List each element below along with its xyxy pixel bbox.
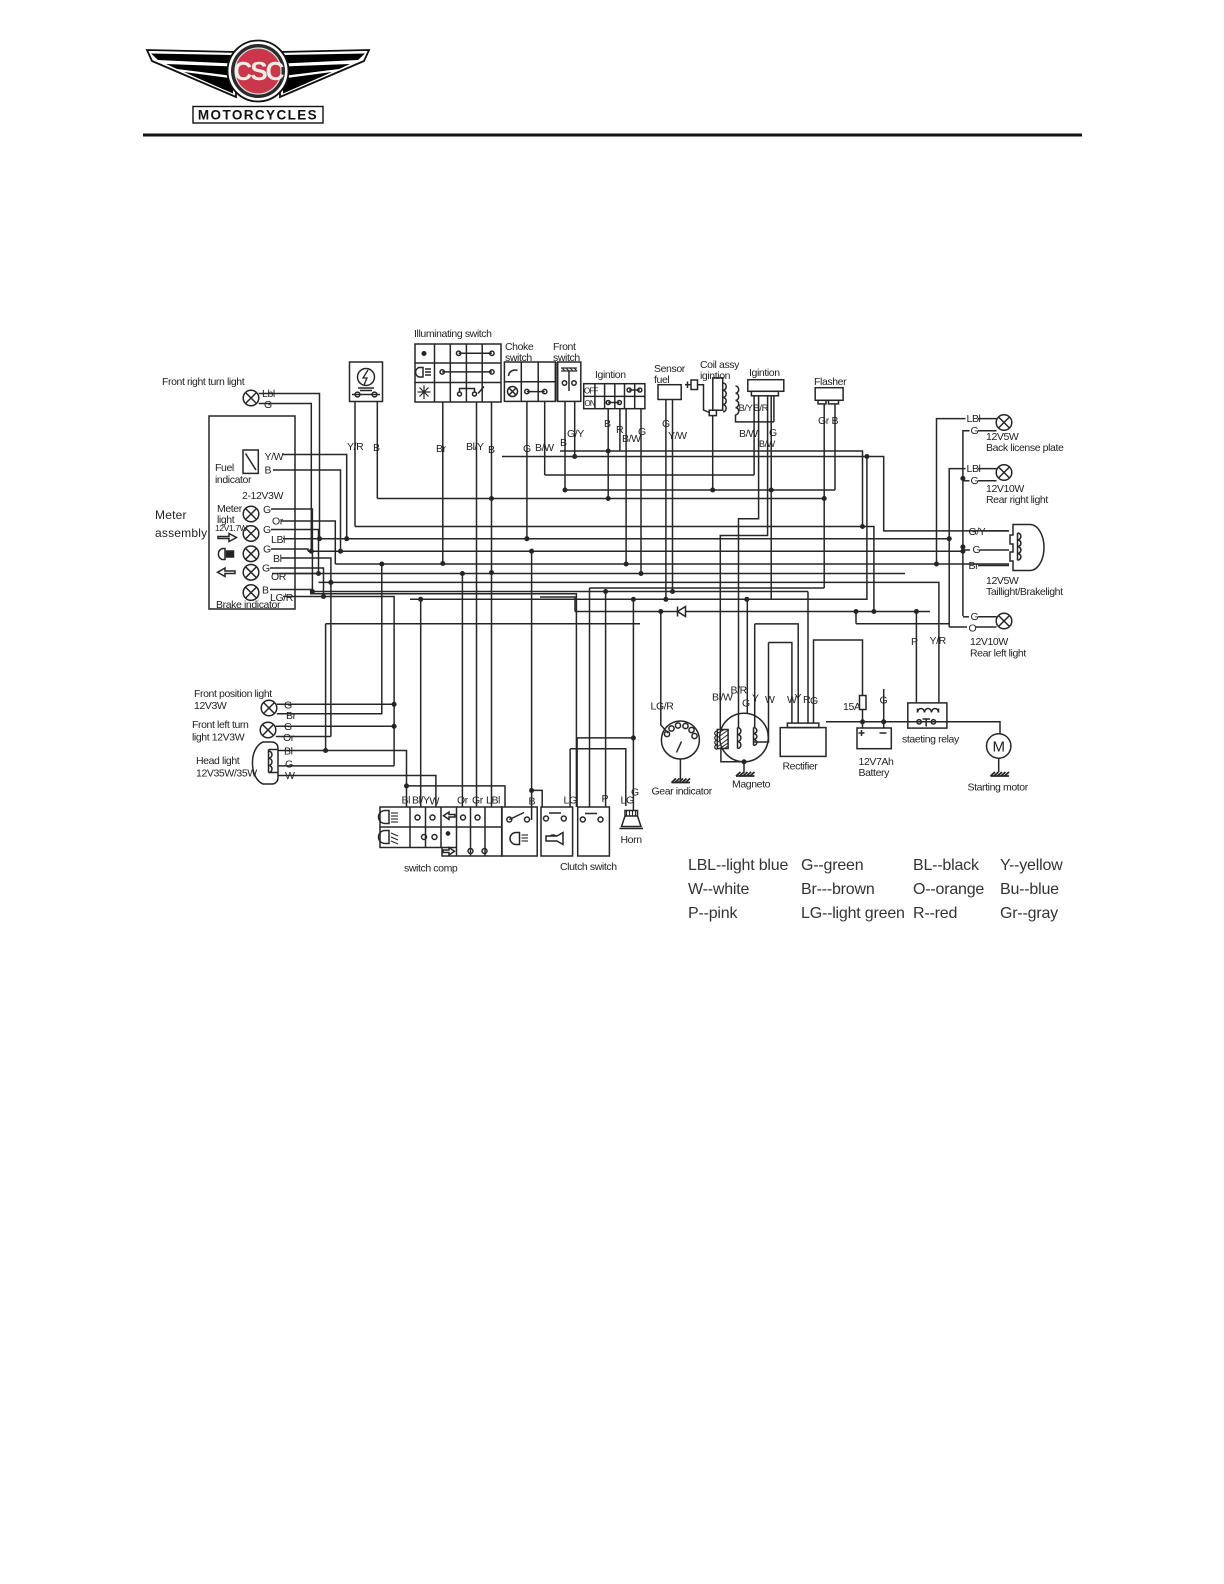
LBl wire back license: [978, 418, 997, 420]
svg-text:Y: Y: [752, 693, 759, 705]
wire Lbl front right turn: [259, 394, 320, 539]
rear left light lamp: [969, 611, 1027, 660]
svg-text:Rear right light: Rear right light: [986, 494, 1048, 506]
stator hatched block: [717, 730, 728, 749]
svg-text:ON: ON: [585, 399, 596, 408]
front left turn light: [192, 719, 295, 744]
G meter1 wire: [271, 509, 312, 592]
svg-text:B: B: [832, 415, 839, 427]
svg-text:G/Y: G/Y: [969, 526, 986, 538]
OR meter wire joins bus: [280, 573, 319, 575]
horn: [620, 787, 644, 847]
svg-text:G: G: [523, 443, 531, 455]
choke switch: [504, 341, 555, 401]
svg-text:Front right turn light: Front right turn light: [162, 376, 245, 388]
wire Y/R from key switch: [354, 402, 356, 527]
wires from ignition coil: [753, 422, 755, 475]
back license plate lamp: [967, 413, 1064, 454]
LG/R brake wire = bus start: [283, 597, 394, 766]
svg-text:G/Y: G/Y: [567, 428, 584, 440]
diode symbol: [678, 607, 686, 617]
svg-text:G: G: [631, 787, 639, 799]
svg-text:G: G: [285, 759, 293, 771]
bus y564 (Br taillight): [335, 563, 1009, 565]
svg-text:BL--black: BL--black: [913, 857, 980, 874]
front switch: [553, 341, 581, 401]
illuminating switch: [414, 328, 501, 402]
svg-text:light 12V3W: light 12V3W: [192, 732, 245, 744]
front position light: [194, 688, 297, 722]
jog wire from Bl dot over top: [407, 786, 506, 807]
starting relay: [902, 703, 960, 746]
right wing: [280, 50, 369, 97]
clutch switch box: [560, 807, 617, 873]
svg-text:Bl: Bl: [273, 553, 282, 565]
G meter3 wire: [271, 549, 308, 551]
svg-text:indicator: indicator: [215, 474, 252, 486]
svg-text:Y/W: Y/W: [265, 451, 284, 463]
Or meter wire: [281, 521, 335, 564]
magneto: [715, 713, 771, 790]
svg-text:G: G: [742, 698, 750, 710]
wires from choke switch: [526, 401, 528, 538]
bus B y498.5: [377, 498, 824, 500]
rectifier: [780, 723, 826, 772]
svg-text:Illuminating switch: Illuminating switch: [414, 328, 492, 340]
fuel indicator: [243, 450, 258, 473]
dimmer switch box: [502, 807, 538, 856]
Bl meter wire: [281, 558, 331, 737]
bus Y/W->G/Y y456: [502, 457, 1009, 531]
fuse 15A: [843, 696, 866, 714]
svg-text:G: G: [263, 544, 271, 556]
bus B/W partial y475: [545, 474, 754, 476]
svg-text:Meter: Meter: [155, 508, 187, 522]
svg-text:Starting motor: Starting motor: [968, 782, 1029, 794]
bus y551.2: [308, 550, 963, 552]
O wire rear left: [976, 626, 997, 628]
G/Y wire to tail: [984, 530, 1009, 532]
svg-text:LBl: LBl: [486, 795, 500, 807]
svg-text:B/W: B/W: [535, 442, 554, 454]
LBl meter wire: [283, 538, 347, 540]
svg-text:Or: Or: [283, 732, 295, 744]
svg-text:G: G: [263, 524, 271, 536]
front right turn light: [162, 376, 275, 411]
inner coils: [738, 728, 741, 749]
bus y591.5: [312, 591, 808, 593]
svg-text:O: O: [969, 623, 977, 635]
bus Y/R y526.5: [355, 527, 874, 612]
svg-text:MOTORCYCLES: MOTORCYCLES: [198, 108, 318, 123]
svg-text:Br: Br: [969, 560, 980, 572]
G wire head light: [278, 765, 394, 767]
bus y582.4: [319, 582, 939, 703]
svg-text:Horn: Horn: [621, 834, 643, 846]
svg-text:B/Y: B/Y: [739, 403, 754, 414]
svg-text:Flasher: Flasher: [814, 376, 847, 388]
svg-text:B: B: [488, 444, 495, 456]
svg-text:igintion: igintion: [700, 370, 731, 382]
headlight icon in cell: [416, 368, 423, 378]
sensor fuel: [654, 363, 686, 400]
svg-text:Back license plate: Back license plate: [986, 442, 1064, 454]
diode bus y611.5: [575, 611, 930, 613]
left arrow icon: [218, 568, 236, 577]
svg-text:G: G: [973, 544, 981, 556]
svg-text:Bl/Y: Bl/Y: [466, 441, 484, 453]
svg-text:Front left turn: Front left turn: [192, 719, 249, 731]
Or wire front left: [276, 736, 331, 738]
svg-text:B: B: [604, 418, 611, 430]
svg-text:Magneto: Magneto: [732, 779, 771, 791]
svg-text:staeting relay: staeting relay: [902, 734, 960, 746]
svg-text:Rear left light: Rear left light: [970, 648, 1026, 660]
CSC Motorcycles logo: [147, 41, 369, 124]
svg-text:B: B: [262, 585, 269, 597]
svg-text:B: B: [560, 437, 567, 449]
jog into diode bus: [540, 597, 575, 612]
G wire rear left: [978, 616, 997, 618]
svg-text:W--white: W--white: [688, 881, 750, 898]
svg-text:M: M: [992, 739, 1005, 756]
svg-text:Clutch switch: Clutch switch: [560, 861, 617, 873]
G wire tail: [980, 549, 1009, 551]
headlight icons: [379, 811, 390, 824]
svg-text:Bl: Bl: [402, 795, 411, 807]
wires from sensor fuel: G, Y/W: [665, 400, 667, 600]
wires from front switch: B and G/Y: [564, 401, 566, 490]
svg-text:12V1.7W: 12V1.7W: [215, 523, 248, 533]
svg-text:G--green: G--green: [801, 857, 863, 874]
horn switch box: [541, 807, 573, 856]
left wing: [147, 50, 236, 97]
svg-text:W: W: [430, 796, 440, 808]
svg-text:Igintion: Igintion: [595, 369, 626, 381]
ignition switch (OFF/ON): [584, 369, 645, 409]
centre rings: [228, 41, 289, 102]
svg-text:OFF: OFF: [584, 387, 599, 396]
LBl wire rear right: [978, 468, 997, 470]
right arrow icon: [218, 534, 237, 542]
bus y490: [565, 489, 835, 491]
outer stepped outline: [380, 807, 502, 856]
spark plug: [691, 380, 698, 390]
svg-text:Y--yellow: Y--yellow: [1000, 857, 1063, 874]
meter assembly: [155, 416, 295, 611]
header rule: [143, 134, 1082, 137]
svg-text:Gr: Gr: [818, 415, 830, 427]
B/Y link wire: [736, 415, 774, 422]
svg-text:B: B: [373, 442, 380, 454]
starting motor: [968, 734, 1029, 794]
svg-text:B/W: B/W: [739, 428, 758, 440]
meter lamps: [243, 506, 259, 600]
svg-text:Gr: Gr: [472, 795, 484, 807]
svg-text:LBl: LBl: [271, 534, 285, 546]
svg-text:Bu--blue: Bu--blue: [1000, 881, 1059, 898]
bus y538.7: [347, 538, 950, 540]
bus y599.3: [410, 457, 867, 600]
bus y623.7 right part: [856, 623, 949, 625]
clutch B line y588: [590, 587, 825, 589]
wire G front right turn: [259, 404, 312, 552]
cell circles row1: [415, 815, 420, 820]
svg-text:Gr--gray: Gr--gray: [1000, 905, 1058, 922]
svg-text:2-12V3W: 2-12V3W: [242, 490, 283, 502]
svg-text:W: W: [765, 694, 775, 706]
Bl wire head light: [278, 751, 407, 808]
Br wire tail: [978, 565, 1009, 567]
W wire head light: [278, 776, 436, 808]
row2 contact: [442, 371, 492, 373]
G meter2 wire: [271, 530, 319, 574]
wires from flasher: Gr, B: [823, 404, 825, 588]
svg-text:LG/R: LG/R: [270, 592, 294, 604]
banner: [193, 107, 323, 124]
B fuel wire: [273, 470, 341, 551]
row2: [422, 835, 427, 840]
svg-text:Igintion: Igintion: [749, 367, 780, 379]
svg-text:LG--light green: LG--light green: [801, 905, 905, 922]
svg-text:Front position light: Front position light: [194, 688, 272, 700]
G meter4 wire: [270, 568, 324, 597]
svg-text:O--orange: O--orange: [913, 881, 984, 898]
row3 contact: [458, 392, 462, 396]
svg-text:G: G: [971, 611, 979, 623]
svg-text:B/W: B/W: [759, 439, 776, 449]
legend: [688, 857, 1063, 922]
svg-text:Y/W: Y/W: [668, 430, 687, 442]
horn icon: [546, 833, 563, 845]
key/main switch S1: [350, 362, 383, 402]
G wire front left: [276, 725, 394, 727]
rear right light lamp: [967, 463, 1049, 506]
svg-text:switch comp: switch comp: [404, 863, 458, 875]
wire from coil assy down: [712, 416, 714, 490]
svg-text:Battery: Battery: [859, 767, 891, 779]
svg-text:Rectifier: Rectifier: [783, 761, 819, 773]
svg-text:G: G: [263, 504, 271, 516]
left arrow icon: [444, 812, 456, 820]
svg-text:Fuel: Fuel: [215, 462, 234, 474]
G wire rear right: [978, 480, 997, 482]
wire B from key switch: [376, 402, 378, 499]
svg-text:Y/R: Y/R: [930, 635, 947, 647]
G wire back license: [978, 430, 997, 432]
Y/W wire: [282, 455, 347, 539]
G wire front position: [277, 703, 394, 705]
svg-text:Br: Br: [436, 443, 447, 455]
svg-text:15A: 15A: [843, 701, 861, 713]
svg-text:LBL--light blue: LBL--light blue: [688, 857, 788, 874]
svg-text:Bl: Bl: [284, 746, 293, 758]
coil body: [713, 378, 723, 410]
main power line: [826, 722, 1000, 734]
head light: [196, 742, 295, 784]
svg-text:R--red: R--red: [913, 905, 957, 922]
headlight icon: [218, 549, 225, 560]
svg-text:B/R: B/R: [754, 403, 769, 414]
svg-text:G: G: [971, 475, 979, 487]
coil assy ignition: [685, 359, 774, 422]
bus y573.5: [272, 573, 905, 575]
svg-text:G: G: [638, 426, 646, 438]
svg-text:B: B: [265, 465, 272, 477]
svg-text:Y: Y: [795, 692, 802, 704]
svg-text:assembly: assembly: [155, 526, 207, 540]
bus y593.8 partial: [310, 594, 576, 807]
svg-text:12V3W: 12V3W: [194, 700, 227, 712]
svg-text:G: G: [662, 418, 670, 430]
svg-text:12V35W/35W: 12V35W/35W: [196, 768, 257, 780]
taillight/brakelight: [969, 525, 1064, 599]
battery: [857, 695, 894, 780]
svg-text:LG/R: LG/R: [651, 701, 675, 713]
bus y623.7 left part: [326, 623, 640, 625]
svg-text:B/R: B/R: [731, 685, 748, 697]
svg-text:Taillight/Brakelight: Taillight/Brakelight: [986, 586, 1063, 598]
risers from switch comp pins: [420, 794, 422, 807]
svg-text:G: G: [262, 563, 270, 575]
svg-text:CSC: CSC: [234, 56, 285, 86]
B brake wire: [270, 590, 312, 592]
svg-text:Head light: Head light: [196, 755, 240, 767]
svg-text:Br---brown: Br---brown: [801, 881, 875, 898]
svg-text:Gear indicator: Gear indicator: [652, 786, 713, 798]
flasher: [814, 376, 847, 404]
svg-text:G: G: [971, 425, 979, 437]
svg-text:G: G: [264, 399, 272, 411]
right arrow icon lower: [443, 848, 455, 856]
wires from illuminating switch: [442, 402, 444, 564]
gear indicator: [651, 701, 713, 798]
svg-text:P--pink: P--pink: [688, 905, 738, 922]
svg-text:Y/R: Y/R: [347, 441, 364, 453]
row1 contact: [459, 352, 492, 354]
ignition coil: [748, 367, 784, 422]
wires from ignition switch: B R B/W G: [607, 409, 609, 499]
star icon: [418, 386, 431, 400]
Br wire front position: [277, 564, 382, 714]
svg-text:12V10W: 12V10W: [970, 636, 1008, 648]
bus R-ignition y451: [560, 451, 863, 527]
svg-text:G: G: [769, 427, 777, 439]
